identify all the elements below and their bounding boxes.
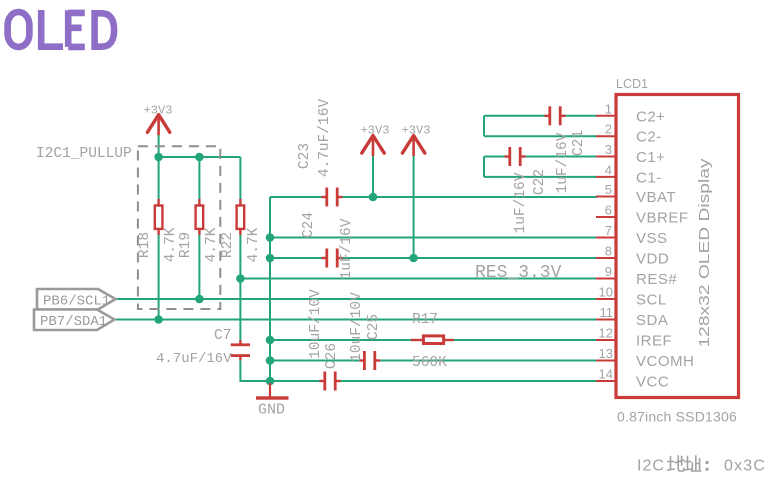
wire R19 top lead: [198, 157, 200, 201]
svg-text:9: 9: [605, 264, 612, 279]
svg-text:R18: R18: [137, 232, 153, 258]
wire VCOMH left of C25: [270, 360, 359, 362]
svg-text:4.7uF/16V: 4.7uF/16V: [156, 351, 232, 367]
power +3V3 at VBAT: [361, 124, 390, 157]
junction GND bus / VCOMH: [266, 356, 275, 365]
svg-text:PB7/SDA1: PB7/SDA1: [40, 314, 107, 330]
junction GND bus / VDD: [266, 254, 275, 263]
resistor R19 4.7K: [178, 199, 220, 262]
LCD1 pin names: [636, 108, 694, 390]
svg-text:I2C: I2C: [637, 458, 665, 475]
svg-text:11: 11: [600, 305, 614, 320]
capacitor C22 1uF/16V: [504, 147, 548, 233]
svg-text:R17: R17: [412, 312, 438, 328]
resistor R17 560K: [411, 312, 454, 371]
svg-text:LCD1: LCD1: [616, 77, 648, 91]
svg-text:VCC: VCC: [636, 374, 669, 391]
hanzi ZHI (址): [685, 457, 691, 471]
svg-text:VCOMH: VCOMH: [636, 353, 694, 370]
svg-text:2: 2: [605, 122, 612, 137]
wire R18 top lead: [158, 157, 160, 201]
svg-text:PB6/SCL1: PB6/SCL1: [43, 294, 110, 310]
svg-text:6: 6: [605, 203, 612, 218]
wire C7 bottom to GND corner: [240, 360, 270, 381]
wire +3V3 stem to VDD: [413, 156, 415, 258]
wire VSS to pin7: [270, 237, 597, 239]
svg-text:10: 10: [599, 285, 613, 300]
wire VCC left of C26: [270, 380, 320, 382]
svg-text:1: 1: [605, 101, 612, 116]
junction SCL / R19: [195, 295, 204, 304]
junction VDD / +3V3: [409, 254, 418, 263]
svg-text:SCL: SCL: [636, 292, 667, 309]
svg-text:128x32 OLED Display: 128x32 OLED Display: [696, 158, 713, 348]
note I2C address 0x3C: [637, 456, 766, 475]
sheet title OLED: [8, 10, 115, 50]
svg-text:R22: R22: [220, 232, 236, 258]
svg-text:4.7K: 4.7K: [246, 227, 262, 262]
resistor R22 4.7K: [220, 199, 262, 262]
svg-text:14: 14: [599, 367, 613, 382]
capacitor C24 1uF/16V: [301, 212, 355, 280]
svg-text:VSS: VSS: [636, 230, 668, 247]
svg-text:+3V3: +3V3: [144, 104, 173, 118]
capacitor C25 10uF/10V: [349, 292, 382, 370]
svg-text:1uF/16V: 1uF/16V: [339, 218, 355, 279]
svg-text:IREF: IREF: [636, 333, 672, 350]
wire +3V3 pullup stem: [158, 135, 160, 157]
svg-text:VBAT: VBAT: [636, 189, 676, 206]
wire C21 to pin1 stub: [566, 115, 598, 117]
svg-text:RES_3.3V: RES_3.3V: [475, 263, 562, 283]
junction SDA / R18: [154, 315, 163, 324]
svg-text:13: 13: [599, 346, 613, 361]
capacitor C26 10uF/10V: [308, 289, 341, 391]
wire SCL flag to pin10: [114, 298, 597, 300]
svg-text:C25: C25: [366, 314, 382, 340]
svg-text:C23: C23: [297, 143, 313, 169]
wire IREF left of R17: [270, 339, 413, 341]
I2C1_PULLUP dashed group box: [36, 146, 220, 309]
svg-text:VDD: VDD: [636, 251, 669, 268]
fullwidth colon: [706, 461, 709, 464]
LCD1 pin numbers: [599, 101, 613, 381]
svg-text:R19: R19: [178, 232, 194, 258]
wire IREF R17 to pin12: [452, 339, 597, 341]
wire VBAT left of C23: [270, 196, 322, 198]
wire R22 top lead: [239, 157, 241, 201]
svg-text:560K: 560K: [412, 355, 447, 371]
junction GND bus / IREF: [266, 336, 275, 345]
svg-text:C2-: C2-: [636, 129, 662, 146]
svg-text:0x3C: 0x3C: [724, 458, 766, 475]
junction pullup bus / R18: [154, 153, 163, 162]
svg-text:C7: C7: [214, 328, 231, 344]
wire VCC C26 to pin14: [341, 380, 598, 382]
hanzi DI (地): [668, 457, 674, 471]
svg-text:4.7uF/16V: 4.7uF/16V: [317, 99, 333, 178]
wire RES to pin9: [240, 278, 597, 280]
svg-text:4: 4: [605, 162, 612, 177]
wire pullup top bus: [159, 156, 241, 158]
capacitor C23 4.7uF/16V: [297, 99, 343, 207]
junction VBAT / +3V3: [369, 193, 378, 202]
power +3V3 above pullup block: [144, 104, 173, 136]
svg-text:10uF/10V: 10uF/10V: [349, 292, 365, 362]
svg-text:12: 12: [599, 326, 613, 341]
svg-text:RES#: RES#: [636, 271, 677, 288]
svg-text:C26: C26: [324, 343, 340, 369]
svg-text:4.7K: 4.7K: [204, 227, 220, 262]
capacitor C21 1uF/16V: [544, 106, 587, 193]
junction GND bus / VSS: [266, 233, 275, 242]
wire GND vertical bus: [269, 197, 271, 381]
wire +3V3 stem to VBAT: [372, 156, 374, 197]
power +3V3 at VDD: [402, 124, 431, 157]
wire VCOMH C25 to pin13: [380, 360, 597, 362]
wire R18 bottom to SDA: [158, 233, 160, 320]
svg-text:VBREF: VBREF: [636, 210, 689, 227]
svg-text:I2C1_PULLUP: I2C1_PULLUP: [36, 146, 132, 162]
junction GND bus / VCC: [266, 377, 275, 386]
svg-text:SDA: SDA: [636, 312, 668, 329]
svg-text:GND: GND: [258, 402, 285, 419]
wire pin1 to C21: [484, 115, 545, 117]
wire VDD left of C24: [270, 257, 322, 259]
svg-text:1uF/16V: 1uF/16V: [513, 172, 529, 233]
wire SDA flag to pin11: [113, 319, 597, 321]
svg-text:C22: C22: [532, 169, 548, 195]
resistor R18 4.7K: [137, 199, 179, 262]
svg-text:C2+: C2+: [636, 108, 665, 125]
svg-text:0.87inch SSD1306: 0.87inch SSD1306: [617, 409, 737, 425]
svg-text:1uF/16V: 1uF/16V: [555, 132, 571, 193]
wire pin4: [484, 176, 597, 178]
junction pullup bus / R19: [195, 153, 204, 162]
svg-text:C1-: C1-: [636, 169, 662, 186]
svg-text:5: 5: [605, 182, 612, 197]
LCD1 pin stubs 1-14: [596, 116, 616, 381]
wire C22 to pin3 stub: [526, 156, 598, 158]
wire C22 loop vertical: [483, 157, 485, 177]
svg-text:4.7K: 4.7K: [163, 227, 179, 262]
wire pin3 to C22: [484, 156, 505, 158]
svg-text:+3V3: +3V3: [402, 124, 431, 138]
svg-text:7: 7: [605, 223, 612, 238]
junction RES / R22: [236, 274, 245, 283]
wire C21 loop vertical: [483, 116, 485, 136]
svg-text:C1+: C1+: [636, 149, 665, 166]
svg-text:+3V3: +3V3: [361, 124, 390, 138]
wire R19 bottom to SCL: [198, 233, 200, 299]
capacitor C7 4.7uF/16V: [156, 328, 250, 367]
svg-text:10uF/10V: 10uF/10V: [308, 289, 324, 359]
svg-text:8: 8: [605, 244, 612, 259]
net flag PB7/SDA1: [34, 310, 115, 331]
connector LCD1 body: [616, 77, 739, 425]
net flag PB6/SCL1: [37, 289, 116, 310]
wire VDD C24 to pin8: [343, 257, 598, 259]
svg-text:3: 3: [605, 142, 612, 157]
wire VBAT C23 to pin5: [343, 196, 598, 198]
wire R22 bottom to C7: [239, 233, 241, 340]
svg-text:C24: C24: [301, 212, 317, 238]
wire pin2: [484, 135, 597, 137]
ground GND: [256, 383, 289, 419]
net label RES_3.3V: [475, 263, 562, 283]
svg-text:C21: C21: [571, 130, 587, 156]
